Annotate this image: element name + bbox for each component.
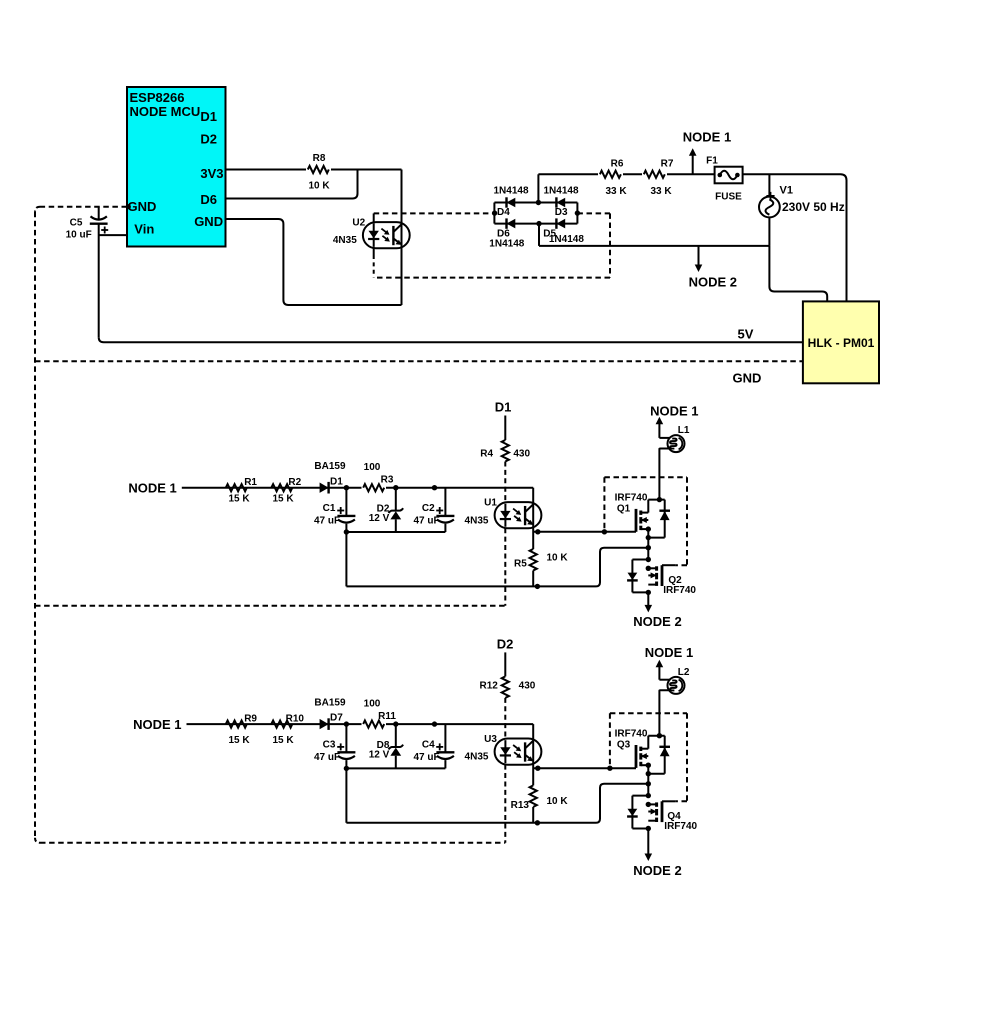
svg-text:R11: R11 [378, 711, 396, 722]
svg-text:R6: R6 [611, 159, 624, 170]
svg-text:NODE MCU: NODE MCU [130, 104, 201, 119]
svg-text:230V 50 Hz: 230V 50 Hz [782, 200, 845, 214]
svg-text:R12: R12 [480, 680, 499, 691]
svg-text:U2: U2 [352, 218, 365, 229]
svg-text:NODE 2: NODE 2 [689, 275, 737, 290]
svg-text:15 K: 15 K [272, 735, 294, 746]
svg-text:C4: C4 [422, 740, 435, 751]
svg-text:3V3: 3V3 [200, 166, 223, 181]
svg-text:IRF740: IRF740 [664, 821, 697, 832]
svg-text:100: 100 [364, 462, 381, 473]
svg-text:R2: R2 [288, 477, 301, 488]
svg-text:1N4148: 1N4148 [549, 234, 584, 245]
svg-text:D2: D2 [497, 636, 514, 651]
svg-text:4N35: 4N35 [465, 752, 489, 763]
svg-text:Q3: Q3 [617, 740, 631, 751]
svg-text:47 uF: 47 uF [413, 752, 439, 763]
svg-text:NODE 1: NODE 1 [683, 130, 731, 145]
svg-text:47 uF: 47 uF [314, 515, 340, 526]
svg-text:10 uF: 10 uF [66, 230, 92, 241]
svg-text:NODE 2: NODE 2 [633, 863, 681, 878]
svg-text:430: 430 [513, 449, 530, 460]
svg-text:Vin: Vin [134, 222, 154, 237]
svg-text:10 K: 10 K [546, 796, 568, 807]
svg-text:L2: L2 [678, 667, 690, 678]
svg-text:15 K: 15 K [228, 494, 250, 505]
svg-text:GND: GND [194, 214, 223, 229]
svg-text:430: 430 [519, 680, 536, 691]
svg-text:NODE 1: NODE 1 [128, 481, 176, 496]
svg-text:FUSE: FUSE [715, 192, 742, 203]
svg-text:12 V: 12 V [369, 513, 390, 524]
svg-text:GND: GND [733, 371, 762, 386]
svg-text:NODE 1: NODE 1 [645, 645, 693, 660]
svg-text:15 K: 15 K [272, 494, 294, 505]
svg-text:1N4148: 1N4148 [489, 239, 524, 250]
svg-text:D1: D1 [330, 476, 343, 487]
svg-text:10 K: 10 K [308, 181, 330, 192]
svg-text:R10: R10 [286, 713, 305, 724]
svg-text:NODE 1: NODE 1 [650, 403, 698, 418]
svg-text:NODE 1: NODE 1 [133, 717, 181, 732]
svg-text:100: 100 [364, 699, 381, 710]
svg-text:BA159: BA159 [314, 461, 346, 472]
svg-text:R9: R9 [244, 713, 257, 724]
svg-text:IRF740: IRF740 [615, 493, 648, 504]
svg-text:R1: R1 [244, 477, 257, 488]
svg-text:12 V: 12 V [369, 749, 390, 760]
svg-text:NODE 2: NODE 2 [633, 614, 681, 629]
svg-text:R4: R4 [480, 449, 493, 460]
svg-text:L1: L1 [678, 425, 690, 436]
svg-text:IRF740: IRF740 [663, 585, 696, 596]
svg-text:33 K: 33 K [650, 186, 672, 197]
svg-text:33 K: 33 K [605, 186, 627, 197]
svg-text:Q1: Q1 [617, 504, 631, 515]
svg-text:D6: D6 [200, 192, 217, 207]
svg-text:C2: C2 [422, 503, 435, 514]
svg-text:V1: V1 [780, 185, 793, 197]
svg-text:R13: R13 [511, 800, 530, 811]
svg-text:R3: R3 [381, 475, 394, 486]
svg-text:D4: D4 [497, 207, 510, 218]
svg-text:HLK - PM01: HLK - PM01 [808, 336, 875, 350]
svg-text:R7: R7 [661, 159, 674, 170]
svg-text:10 K: 10 K [546, 553, 568, 564]
svg-text:4N35: 4N35 [333, 235, 357, 246]
svg-text:D1: D1 [200, 109, 217, 124]
svg-text:C1: C1 [323, 503, 336, 514]
svg-text:D2: D2 [200, 131, 217, 146]
svg-text:1N4148: 1N4148 [543, 185, 578, 196]
svg-text:D7: D7 [330, 713, 343, 724]
svg-text:4N35: 4N35 [465, 515, 489, 526]
svg-text:R5: R5 [514, 559, 527, 570]
svg-text:BA159: BA159 [314, 697, 346, 708]
svg-text:U3: U3 [484, 734, 497, 745]
svg-text:R8: R8 [313, 153, 326, 164]
svg-text:IRF740: IRF740 [615, 729, 648, 740]
svg-text:1N4148: 1N4148 [493, 185, 528, 196]
svg-text:GND: GND [128, 199, 157, 214]
svg-text:47 uF: 47 uF [413, 515, 439, 526]
svg-text:5V: 5V [738, 327, 754, 342]
svg-text:F1: F1 [706, 156, 718, 167]
svg-text:C3: C3 [323, 740, 336, 751]
svg-text:47 uF: 47 uF [314, 752, 340, 763]
svg-text:U1: U1 [484, 498, 497, 509]
svg-text:15 K: 15 K [228, 735, 250, 746]
svg-text:D3: D3 [555, 207, 568, 218]
svg-text:ESP8266: ESP8266 [130, 90, 185, 105]
svg-text:C5: C5 [70, 218, 83, 229]
svg-text:D1: D1 [495, 400, 512, 415]
